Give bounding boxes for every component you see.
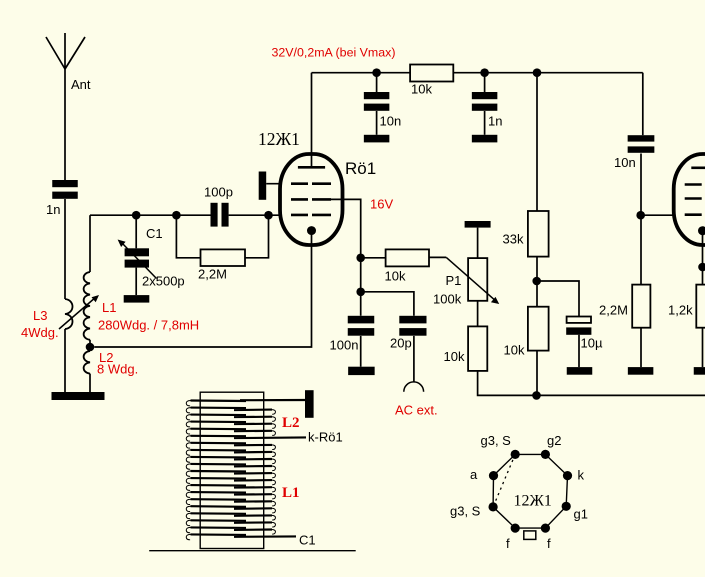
junction 33k/10k/10u — [532, 277, 541, 286]
wire 10n to ground — [376, 111, 378, 135]
coil baseline — [149, 550, 356, 552]
svg-text:g3, S: g3, S — [481, 433, 512, 448]
svg-text:12Ж1: 12Ж1 — [258, 129, 300, 149]
wire to 20p — [361, 292, 414, 316]
wire cathode Ro1 to coil tap — [94, 235, 311, 347]
wire P1 leg to bottom rail — [478, 371, 537, 396]
svg-text:1n: 1n — [46, 202, 60, 217]
svg-text:10k: 10k — [444, 349, 465, 364]
potentiometer P1 wiper arrow — [446, 257, 494, 299]
pinout octagon 12Zh1 — [493, 454, 567, 528]
pin g1 — [562, 502, 571, 511]
coil top terminal bar — [305, 390, 314, 418]
svg-text:L3: L3 — [33, 308, 47, 323]
wire L3 to ground — [64, 329, 66, 392]
svg-text:10n: 10n — [380, 114, 402, 129]
resistor 10k (screen feed) — [386, 249, 429, 266]
svg-text:10n: 10n — [614, 155, 636, 170]
pinout internal link g3-S (dotted) — [493, 454, 515, 507]
svg-text:16V: 16V — [370, 197, 393, 212]
svg-text:g1: g1 — [574, 507, 588, 522]
terminal AC ext. — [404, 382, 424, 392]
capacitor 100p — [211, 203, 229, 227]
pin g3,S top — [511, 450, 520, 459]
wire L1 to tap — [89, 340, 91, 347]
junction C1 top — [132, 211, 141, 220]
tube Ro2 envelope (partial) — [674, 154, 705, 245]
wire 33k to junction — [536, 257, 538, 307]
junction rail/33k — [533, 68, 542, 77]
svg-text:10k: 10k — [411, 82, 432, 97]
junction 100p left — [172, 211, 181, 220]
resistor 2,2M (grid leak) — [201, 249, 246, 266]
svg-text:1,2k: 1,2k — [668, 303, 693, 318]
tube Ro2 grids (dashed) — [685, 185, 705, 215]
wire P1 top — [477, 228, 479, 259]
variable coupling arrow L3/L1 — [59, 297, 96, 329]
wire 1n to ground — [484, 111, 486, 135]
wire 1n to L3 — [64, 199, 66, 299]
wire tuned-circuit node — [90, 214, 211, 216]
svg-text:g2: g2 — [547, 433, 561, 448]
wire 10u to ground — [578, 335, 580, 367]
svg-text:100n: 100n — [330, 337, 359, 352]
ground (1,2k) — [694, 367, 705, 375]
wire to C1 — [135, 215, 137, 248]
pin f left — [511, 524, 520, 533]
wire rail to 1n — [484, 73, 486, 92]
svg-text:8 Wdg.: 8 Wdg. — [97, 362, 138, 377]
svg-text:g3, S: g3, S — [450, 504, 481, 519]
svg-text:P1: P1 — [446, 273, 462, 288]
capacitor 10n (coupling) — [628, 135, 655, 153]
resistor 10k (below 33k) — [528, 307, 549, 351]
svg-text:L2: L2 — [282, 415, 300, 431]
wire g2 to divider — [331, 199, 361, 315]
tube Ro1 grid g2 (dashed) — [291, 198, 331, 201]
wire 2,2M to ground — [640, 328, 642, 367]
svg-text:100p: 100p — [204, 185, 233, 200]
wire junction to 10u — [537, 281, 579, 317]
wire tube2 cathode — [702, 235, 704, 285]
ground (2,2M) — [628, 367, 654, 375]
svg-text:33k: 33k — [503, 232, 524, 247]
svg-text:f: f — [506, 536, 510, 551]
capacitor 1n (antenna) — [52, 180, 78, 199]
wire antenna lead — [64, 69, 66, 180]
svg-text:Ant: Ant — [71, 77, 91, 92]
svg-text:4Wdg.: 4Wdg. — [21, 325, 59, 340]
svg-text:12Ж1: 12Ж1 — [514, 493, 552, 510]
svg-text:f: f — [547, 536, 551, 551]
wire 100n to ground — [360, 336, 362, 367]
capacitor 100n — [348, 316, 375, 336]
tube Ro1 grid g3/S (dashed) — [291, 182, 331, 185]
ground (10n) — [364, 135, 390, 143]
junction g1 second stage — [636, 211, 645, 220]
wire grid node to tube g1 — [269, 214, 293, 216]
wire 1,2k to ground — [702, 328, 704, 367]
resistor 1,2k (cathode) — [696, 285, 705, 328]
svg-text:10µ: 10µ — [581, 336, 603, 351]
wire rail to 33k — [536, 73, 538, 211]
coil winding hooks — [186, 401, 275, 540]
svg-text:32V/0,2mA (bei Vmax): 32V/0,2mA (bei Vmax) — [272, 46, 396, 60]
resistor 10k (below P1) — [468, 326, 487, 371]
svg-text:20p: 20p — [390, 336, 412, 351]
junction L1/L2 tap — [86, 343, 95, 352]
junction g2/20p — [356, 288, 365, 297]
svg-text:10k: 10k — [504, 343, 525, 358]
wire 10k to bottom rail — [536, 351, 538, 396]
wire to tube2 g1 — [641, 214, 688, 216]
wire rail down right — [642, 73, 644, 136]
tube Ro1 cathode — [307, 226, 316, 235]
wire L2 to ground — [89, 374, 91, 392]
wire P1 to 10k — [477, 301, 479, 327]
wire rail to 10n — [376, 73, 378, 92]
wire 20p to terminal — [413, 336, 415, 382]
svg-text:280Wdg. / 7,8mH: 280Wdg. / 7,8mH — [98, 318, 199, 333]
ground (100n) — [348, 367, 375, 375]
svg-text:k: k — [578, 468, 585, 483]
wire 10n to g1 node — [640, 154, 642, 285]
pinout key — [524, 531, 536, 540]
junction bottom rail — [532, 391, 541, 400]
svg-text:1n: 1n — [488, 114, 502, 129]
tube Ro1 envelope — [280, 154, 343, 245]
ground (1n) — [472, 135, 498, 143]
pin g3,S left — [489, 502, 498, 511]
resistor 33k — [528, 211, 549, 257]
svg-text:100k: 100k — [433, 292, 462, 307]
svg-text:L1: L1 — [282, 485, 300, 501]
tube Ro2 anode — [691, 167, 705, 170]
inductor L1 — [84, 272, 90, 340]
resistor 2,2M (second grid leak) — [632, 285, 650, 328]
svg-text:C1: C1 — [146, 226, 163, 241]
junction tube2 cathode — [698, 263, 705, 272]
svg-text:Rö1: Rö1 — [345, 159, 376, 178]
pin g2 — [541, 450, 550, 459]
potentiometer P1 body — [468, 258, 487, 301]
svg-text:2,2M: 2,2M — [599, 303, 628, 318]
wire grid node down to L1 — [89, 215, 91, 272]
wire supply rail left — [312, 72, 411, 74]
svg-text:k-Rö1: k-Rö1 — [308, 430, 343, 445]
capacitor 1n (decoupling) — [472, 92, 498, 111]
wire supply rail right — [453, 72, 643, 74]
wire C1 to chassis — [135, 268, 137, 296]
wire 10k to wiper — [429, 256, 446, 258]
variable capacitor C1 — [118, 240, 157, 279]
ground (10u) — [567, 367, 593, 375]
pin k — [563, 471, 572, 480]
wire shield bar to tube g3 — [266, 183, 292, 185]
pin f right — [541, 524, 550, 533]
junction g2/10k — [356, 253, 365, 262]
svg-text:AC ext.: AC ext. — [395, 403, 438, 418]
inductor L3 — [65, 299, 73, 329]
shield/grid-cap bar — [259, 172, 267, 200]
chassis bar (C1 rotor) — [124, 295, 150, 303]
coil windings — [191, 400, 307, 537]
wire 2,2M to grid node — [245, 215, 269, 258]
wire divider to 10k — [361, 257, 386, 259]
wire 100p to grid node — [229, 214, 269, 216]
capacitor 10u electrolytic — [566, 317, 591, 335]
svg-text:10k: 10k — [385, 269, 406, 284]
svg-text:2x500p: 2x500p — [142, 274, 185, 289]
capacitor 10n (decoupling) — [364, 92, 390, 111]
svg-text:C1: C1 — [299, 533, 316, 548]
wire bottom rail — [537, 394, 705, 396]
svg-text:2,2M: 2,2M — [198, 267, 227, 282]
inductor L2 — [84, 351, 90, 374]
junction rail/1n — [480, 68, 489, 77]
coil former — [200, 392, 264, 548]
antenna symbol — [46, 33, 85, 69]
svg-text:a: a — [470, 467, 478, 482]
ground (antenna/coil) — [52, 392, 105, 400]
tube Ro1 anode — [298, 166, 325, 169]
wire anode lead — [311, 73, 313, 166]
wire 100p-left to 2,2M — [176, 215, 200, 258]
svg-text:L1: L1 — [102, 300, 116, 315]
chassis bar (P1 top) — [465, 221, 491, 228]
pin a — [489, 471, 498, 480]
tube Ro1 grid g1 (dashed) — [291, 214, 331, 217]
junction grid node — [264, 211, 273, 220]
capacitor 20p — [399, 316, 426, 336]
junction rail/10n — [372, 68, 381, 77]
tube Ro2 cathode — [698, 226, 705, 235]
resistor 10k (supply dropper) — [410, 65, 453, 82]
